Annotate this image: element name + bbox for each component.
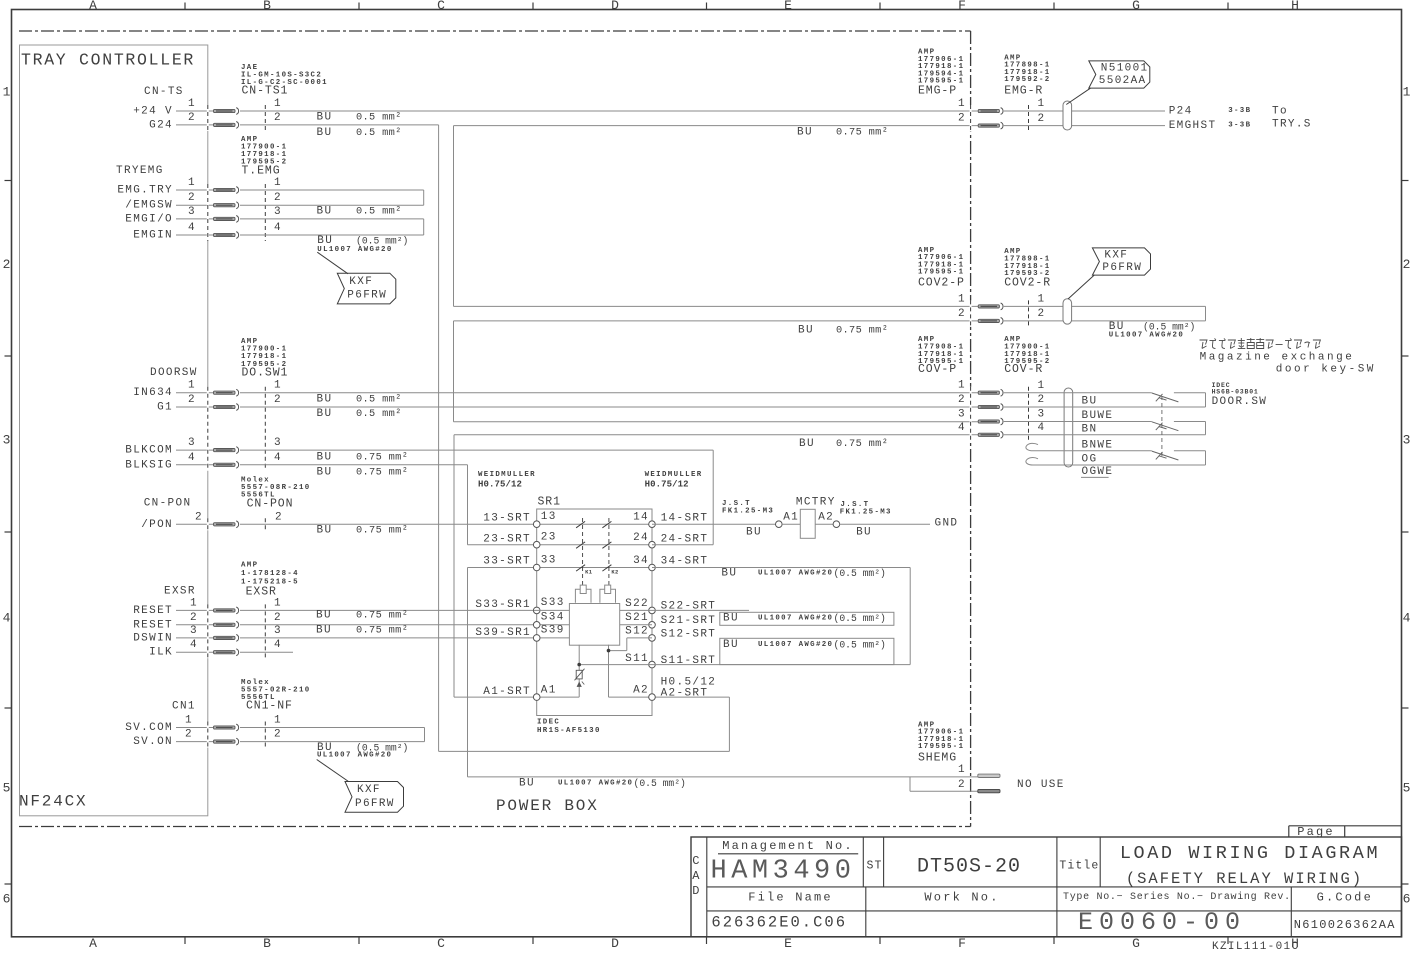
svg-text:OG: OG [1082,454,1098,466]
svg-text:BN: BN [1082,423,1098,435]
svg-text:2: 2 [1038,394,1046,406]
svg-text:RESET: RESET [133,605,173,617]
svg-text:3: 3 [274,206,282,218]
svg-text:4: 4 [188,222,196,234]
svg-text:2: 2 [274,729,282,741]
svg-text:3: 3 [274,625,282,637]
svg-text:A2-SRT: A2-SRT [661,687,709,699]
svg-text:BU: BU [723,613,739,625]
svg-text:179592-2: 179592-2 [1004,76,1050,84]
svg-text:BU: BU [797,126,813,138]
svg-text:CN-TS1: CN-TS1 [242,85,289,98]
svg-text:BU: BU [317,394,333,406]
svg-text:BU: BU [723,639,739,651]
svg-text:A2: A2 [818,511,834,523]
svg-text:P6FRW: P6FRW [1102,262,1142,274]
svg-text:2: 2 [188,394,196,406]
svg-text:S33-SR1: S33-SR1 [475,599,531,611]
svg-text:BLKSIG: BLKSIG [125,459,173,471]
svg-text:G: G [1132,936,1140,951]
svg-text:4: 4 [1038,422,1046,434]
svg-text:BNWE: BNWE [1082,439,1114,451]
svg-text:B: B [263,936,271,951]
svg-text:4: 4 [274,452,282,464]
svg-text:1: 1 [958,764,966,776]
svg-text:UL1007 AWG#20: UL1007 AWG#20 [758,641,833,649]
svg-text:KXF: KXF [1104,250,1128,262]
svg-text:MCTRY: MCTRY [796,496,836,508]
svg-text:Title: Title [1059,860,1099,873]
svg-text:UL1007 AWG#20: UL1007 AWG#20 [1109,331,1184,339]
svg-text:BU: BU [317,205,333,217]
svg-text:24-SRT: 24-SRT [661,534,709,546]
svg-text:KZIL111-01C: KZIL111-01C [1212,941,1299,953]
svg-text:BU: BU [317,112,333,124]
svg-text:F: F [958,936,966,951]
svg-text:2: 2 [274,112,282,124]
svg-text:TRYEMG: TRYEMG [116,165,164,177]
svg-text:EMGIN: EMGIN [133,230,173,242]
svg-text:0.5 mm²: 0.5 mm² [356,127,402,139]
svg-text:D: D [692,884,701,898]
svg-text:DOOR.SW: DOOR.SW [1212,396,1268,408]
svg-text:E: E [784,0,792,13]
svg-text:33: 33 [541,554,557,566]
svg-text:(0.5 mm²): (0.5 mm²) [356,235,408,246]
svg-text:C: C [437,936,445,951]
svg-text:D: D [611,936,619,951]
svg-text:(SAFETY RELAY WIRING): (SAFETY RELAY WIRING) [1126,870,1363,888]
svg-text:COV-P: COV-P [918,363,957,376]
svg-text:File Name: File Name [748,890,833,904]
svg-text:3: 3 [190,625,198,637]
svg-text:BU: BU [519,777,535,789]
svg-text:EXSR: EXSR [246,586,277,599]
svg-text:/PON: /PON [141,519,173,531]
svg-text:TRY.S: TRY.S [1272,118,1312,130]
svg-text:T.EMG: T.EMG [242,165,281,178]
svg-text:BU: BU [316,625,332,637]
svg-text:2: 2 [274,192,282,204]
svg-text:1: 1 [3,85,11,100]
svg-text:DOORSW: DOORSW [150,367,198,379]
svg-text:2: 2 [958,308,966,320]
svg-text:BU: BU [856,526,872,538]
svg-text:6: 6 [3,892,11,907]
svg-text:/EMGSW: /EMGSW [125,200,173,212]
svg-text:S39: S39 [541,625,565,637]
svg-text:3: 3 [1038,409,1046,421]
svg-text:1: 1 [274,597,282,609]
svg-text:2: 2 [188,192,196,204]
svg-text:(0.5 mm²): (0.5 mm²) [634,778,686,789]
svg-text:2: 2 [3,257,11,272]
svg-text:CN-PON: CN-PON [247,498,294,511]
svg-text:0.75 mm²: 0.75 mm² [356,610,408,622]
svg-text:33-SRT: 33-SRT [483,556,531,568]
svg-text:0.75 mm²: 0.75 mm² [836,325,888,337]
svg-text:3: 3 [188,206,196,218]
svg-text:EMG-P: EMG-P [918,85,957,98]
svg-text:EMGI/O: EMGI/O [125,213,173,225]
svg-text:34: 34 [633,555,649,567]
svg-text:23-SRT: 23-SRT [483,534,531,546]
svg-text:H: H [1291,0,1299,13]
svg-text:2: 2 [1038,113,1046,125]
svg-text:3: 3 [188,437,196,449]
svg-text:WEIDMULLER: WEIDMULLER [645,471,703,479]
svg-text:6: 6 [1403,892,1411,907]
svg-text:0.75 mm²: 0.75 mm² [356,466,408,478]
svg-text:4: 4 [274,639,282,651]
svg-text:5502AA: 5502AA [1099,75,1147,87]
svg-text:1: 1 [958,380,966,392]
svg-text:4: 4 [1403,611,1411,626]
svg-text:14: 14 [633,512,649,524]
svg-text:HR1S-AF5130: HR1S-AF5130 [537,727,601,735]
svg-text:S22: S22 [625,598,649,610]
svg-text:EMGHST: EMGHST [1169,120,1217,132]
svg-text:BUWE: BUWE [1082,410,1114,422]
svg-text:626362E0.C06: 626362E0.C06 [711,914,847,932]
svg-text:NF24CX: NF24CX [19,793,87,811]
svg-text:1: 1 [1038,294,1046,306]
svg-text:FK1.25-M3: FK1.25-M3 [840,508,892,516]
svg-text:EMG-R: EMG-R [1004,85,1043,98]
svg-text:To: To [1272,106,1288,118]
svg-text:4: 4 [190,639,198,651]
svg-text:CN-PON: CN-PON [144,497,192,509]
svg-text:BU: BU [317,127,333,139]
svg-text:ILK: ILK [149,647,173,659]
svg-text:0.75 mm²: 0.75 mm² [356,625,408,637]
svg-text:BLKCOM: BLKCOM [125,445,173,457]
svg-text:K1: K1 [585,568,593,575]
svg-text:BU: BU [798,325,814,337]
svg-text:1-178128-4: 1-178128-4 [241,570,299,578]
svg-text:E0060-00: E0060-00 [1078,908,1246,937]
svg-text:S11: S11 [625,653,649,665]
svg-text:SV.COM: SV.COM [125,722,173,734]
svg-text:BU: BU [799,438,815,450]
svg-text:door key-SW: door key-SW [1276,364,1376,376]
svg-text:LOAD WIRING DIAGRAM: LOAD WIRING DIAGRAM [1120,843,1380,864]
svg-text:2: 2 [274,394,282,406]
svg-text:BU: BU [317,524,333,536]
svg-text:2: 2 [1403,257,1411,272]
svg-text:0.5 mm²: 0.5 mm² [356,205,402,217]
svg-text:1: 1 [958,98,966,110]
svg-text:BU: BU [721,567,737,579]
svg-text:UL1007 AWG#20: UL1007 AWG#20 [758,615,833,623]
svg-text:AMP: AMP [241,562,258,570]
svg-text:Management No.: Management No. [722,839,854,853]
svg-text:DSWIN: DSWIN [133,632,173,644]
svg-text:A2: A2 [633,684,649,696]
svg-text:1: 1 [1403,85,1411,100]
svg-text:POWER BOX: POWER BOX [496,797,599,815]
svg-text:WEIDMULLER: WEIDMULLER [478,471,536,479]
svg-text:COV2-P: COV2-P [918,276,965,289]
svg-text:Work No.: Work No. [924,890,999,904]
svg-text:BU: BU [317,466,333,478]
svg-text:A1: A1 [783,511,799,523]
svg-text:13-SRT: 13-SRT [483,513,531,525]
svg-text:1: 1 [1038,98,1046,110]
svg-text:CN-TS: CN-TS [144,86,184,98]
svg-text:GND: GND [935,518,959,530]
svg-text:EXSR: EXSR [164,586,196,598]
svg-text:1: 1 [958,293,966,305]
svg-text:1: 1 [190,597,198,609]
svg-text:COV-R: COV-R [1004,363,1043,376]
svg-text:S39-SR1: S39-SR1 [475,627,531,639]
svg-text:2: 2 [1038,308,1046,320]
svg-text:E: E [784,936,792,951]
svg-text:0.75 mm²: 0.75 mm² [836,126,888,138]
svg-text:2: 2 [274,612,282,624]
svg-text:Type No.− Series No.− Drawing: Type No.− Series No.− Drawing Rev. [1063,891,1291,903]
svg-text:ST: ST [867,860,883,873]
svg-text:4: 4 [188,452,196,464]
svg-text:24: 24 [633,532,649,544]
svg-text:A: A [89,936,97,951]
svg-text:SHEMG: SHEMG [918,751,957,764]
svg-text:1: 1 [188,98,196,110]
svg-text:KXF: KXF [349,276,373,288]
svg-text:23: 23 [541,532,557,544]
svg-text:2: 2 [958,113,966,125]
svg-text:UL1007 AWG#20: UL1007 AWG#20 [317,246,392,254]
svg-text:34-SRT: 34-SRT [661,556,709,568]
svg-text:BU: BU [317,451,333,463]
svg-text:S12-SRT: S12-SRT [661,628,717,640]
svg-text:UL1007 AWG#20: UL1007 AWG#20 [758,569,833,577]
svg-text:3-3B: 3-3B [1228,122,1251,130]
svg-text:K2: K2 [611,568,618,575]
svg-text:D: D [611,0,619,13]
svg-text:3: 3 [958,409,966,421]
svg-text:BU: BU [316,610,332,622]
svg-text:14-SRT: 14-SRT [661,513,709,525]
svg-text:A1: A1 [541,684,557,696]
svg-text:CN1: CN1 [172,701,196,713]
svg-text:N610026362AA: N610026362AA [1294,918,1396,932]
svg-text:2: 2 [185,729,193,741]
svg-text:G1: G1 [157,402,173,414]
svg-text:S34: S34 [541,612,565,624]
svg-text:COV2-R: COV2-R [1004,276,1051,289]
svg-text:SV.ON: SV.ON [133,736,173,748]
svg-text:A: A [692,869,701,883]
svg-text:H0.75/12: H0.75/12 [478,479,522,489]
svg-text:3: 3 [1403,433,1411,448]
svg-text:0.75 mm²: 0.75 mm² [356,451,408,463]
svg-text:0.5 mm²: 0.5 mm² [356,394,402,406]
svg-text:DO.SW1: DO.SW1 [242,367,289,380]
svg-text:BU: BU [317,408,333,420]
svg-text:(0.5 mm²): (0.5 mm²) [834,640,886,651]
svg-text:N51001: N51001 [1101,63,1149,75]
svg-text:1: 1 [274,177,282,189]
svg-text:P6FRW: P6FRW [347,290,387,302]
svg-text:BU: BU [1082,396,1098,408]
svg-text:(0.5 mm²): (0.5 mm²) [834,613,886,624]
svg-text:HAM3490: HAM3490 [711,857,856,887]
svg-text:4: 4 [3,611,11,626]
svg-text:1: 1 [274,98,282,110]
svg-text:0.75 mm²: 0.75 mm² [836,438,888,450]
svg-text:P6FRW: P6FRW [355,798,395,810]
svg-text:NO USE: NO USE [1017,779,1065,791]
svg-text:TRAY CONTROLLER: TRAY CONTROLLER [21,51,195,70]
svg-text:3-3B: 3-3B [1228,107,1251,115]
svg-text:0.5 mm²: 0.5 mm² [356,112,402,124]
svg-text:2: 2 [195,511,203,523]
svg-text:IN634: IN634 [133,387,173,399]
svg-text:IDEC: IDEC [537,718,560,726]
svg-text:5: 5 [3,781,11,796]
svg-text:F: F [958,0,966,13]
svg-text:A: A [89,0,97,13]
svg-text:1: 1 [188,380,196,392]
svg-text:UL1007 AWG#20: UL1007 AWG#20 [317,751,392,759]
svg-text:DT50S-20: DT50S-20 [917,856,1021,879]
svg-text:2: 2 [190,612,198,624]
svg-text:1: 1 [274,380,282,392]
svg-text:2: 2 [958,779,966,791]
svg-text:3: 3 [274,437,282,449]
svg-text:G24: G24 [149,119,173,131]
svg-text:13: 13 [541,511,557,523]
svg-text:SR1: SR1 [538,496,561,509]
svg-text:C: C [692,854,701,868]
svg-text:RESET: RESET [133,619,173,631]
svg-text:EMG.TRY: EMG.TRY [117,185,173,197]
svg-text:3: 3 [3,433,11,448]
svg-text:S12: S12 [625,625,649,637]
svg-text:4: 4 [274,222,282,234]
svg-text:G: G [1132,0,1140,13]
svg-text:H0.75/12: H0.75/12 [645,479,689,489]
svg-text:5: 5 [1403,781,1411,796]
svg-text:CN1-NF: CN1-NF [246,700,293,713]
svg-text:C: C [437,0,445,13]
svg-text:1: 1 [274,715,282,727]
svg-text:Magazine exchange: Magazine exchange [1200,351,1355,363]
svg-text:179595-1: 179595-1 [918,743,964,751]
svg-text:0.5 mm²: 0.5 mm² [356,408,402,420]
svg-text:1: 1 [185,715,193,727]
svg-text:S33: S33 [541,597,565,609]
svg-text:S21: S21 [625,612,649,624]
svg-text:KXF: KXF [357,784,381,796]
svg-text:(0.5 mm²): (0.5 mm²) [834,568,886,579]
svg-text:UL1007 AWG#20: UL1007 AWG#20 [558,779,633,787]
svg-text:FK1.25-M3: FK1.25-M3 [722,508,774,516]
svg-text:S21-SRT: S21-SRT [661,615,717,627]
svg-text:2: 2 [275,511,283,523]
svg-text:A1-SRT: A1-SRT [483,686,531,698]
svg-text:BU: BU [746,526,762,538]
svg-text:+24 V: +24 V [133,106,173,118]
svg-text:1: 1 [1038,380,1046,392]
svg-text:B: B [263,0,271,13]
svg-text:G.Code: G.Code [1317,890,1373,904]
svg-text:2: 2 [188,112,196,124]
svg-text:1: 1 [188,177,196,189]
svg-text:2: 2 [958,394,966,406]
svg-text:4: 4 [958,422,966,434]
svg-text:0.75 mm²: 0.75 mm² [356,524,408,536]
svg-text:HS6B-03B01: HS6B-03B01 [1212,389,1259,396]
svg-text:P24: P24 [1169,106,1193,118]
svg-text:OGWE: OGWE [1082,466,1114,478]
